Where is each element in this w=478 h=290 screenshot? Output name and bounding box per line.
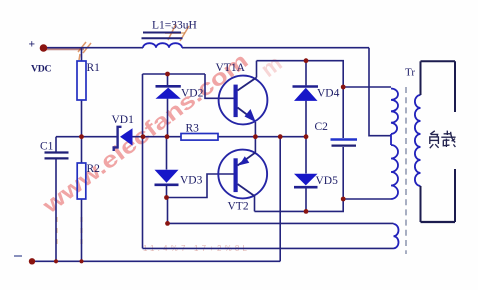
watermark artifacts top-left <box>78 24 189 60</box>
svg-text:R2: R2 <box>87 163 101 175</box>
diode VD4 (pointing up) <box>293 87 319 101</box>
wire: C1 bottom stem <box>55 159 57 261</box>
node VD3 bottom junction <box>164 195 169 200</box>
node VD4 top junction <box>304 58 309 63</box>
transformer core dashed line <box>405 87 407 254</box>
node C1 bottom junction <box>54 259 58 263</box>
diode VD1 (schottky, pointing left) <box>114 127 133 151</box>
svg-text:VT1A: VT1A <box>216 62 246 74</box>
resistor R1 <box>77 61 86 100</box>
wire: top rail right of L1 to right drop <box>182 47 369 49</box>
wire: VT1 emitter riser <box>254 122 256 137</box>
wire: VT1 base link <box>205 74 234 98</box>
wire: VD4 bottom stem <box>305 101 307 137</box>
transformer Tr primary winding upper <box>391 89 398 135</box>
node VDC+ terminal dot <box>40 44 48 52</box>
wire: box left vertical <box>142 74 144 248</box>
watermark artifacts: orange dashes on C1/R2 bottom wires <box>57 217 82 248</box>
svg-text:VT2: VT2 <box>228 201 249 213</box>
wire: VD2 bottom stem <box>167 99 169 137</box>
svg-text:VDC: VDC <box>31 64 52 75</box>
wire: R2 top stem <box>81 137 83 163</box>
wire: riser bottom rail to emitter rail <box>279 137 281 262</box>
node emitter rail junction <box>253 134 258 139</box>
load box bottom <box>421 221 456 223</box>
wire: VD2 top stem <box>167 74 169 85</box>
wire: feedback winding bottom lead <box>143 247 394 249</box>
wire: VT2 emitter riser <box>254 137 256 153</box>
wire: R1 bottom stem <box>81 100 83 137</box>
capacitor C2 <box>331 138 358 141</box>
node riser junction <box>278 134 283 139</box>
node C2 top junction <box>341 85 346 90</box>
resistor R2 <box>77 163 86 199</box>
svg-text:VD2: VD2 <box>181 88 204 100</box>
svg-text:C2: C2 <box>315 121 329 133</box>
svg-text:R3: R3 <box>186 123 200 135</box>
wire: VD2/VD3 box top <box>143 73 206 75</box>
node VD2 top junction <box>165 72 170 77</box>
wire: VT2 collector drop <box>254 196 256 211</box>
wire: C2 node to lower winding bottom <box>343 198 391 200</box>
node R2 bottom junction <box>79 259 83 263</box>
transistor VT2 (PNP) <box>218 150 267 199</box>
wire: feedback winding top lead <box>168 222 394 224</box>
wire: VD3 bottom stem <box>166 186 168 198</box>
transformer secondary winding <box>415 95 421 186</box>
load box right <box>454 61 456 222</box>
wire: VD5 top stem <box>305 137 307 174</box>
node VDC- terminal dot <box>29 258 35 264</box>
wire: VD4 top stem <box>305 61 307 86</box>
node C2 bottom junction <box>341 197 346 202</box>
node box-left/VD1 junction <box>141 134 146 139</box>
svg-text:VD1: VD1 <box>112 114 135 126</box>
node VD2/VD3 mid junction <box>165 134 170 139</box>
- terminal mark <box>14 255 22 257</box>
wire: VT1 collector riser <box>256 61 258 78</box>
diode VD3 (pointing down) <box>155 170 179 185</box>
diode VD2 (pointing up) <box>156 86 181 99</box>
wire: R1 top stem <box>81 48 83 61</box>
wire: bottom rail <box>32 260 280 262</box>
inductor L1 core bars <box>143 32 181 34</box>
node feedback top junction <box>165 221 170 226</box>
node VD4 bottom junction <box>304 134 309 139</box>
wire: R3 to VD4 column (emitter rail) <box>218 136 306 138</box>
wire: C1 top stem <box>55 137 57 152</box>
负 <box>430 131 435 134</box>
wire: C2 bottom stem <box>342 147 344 199</box>
secondary bottom lead <box>420 186 422 222</box>
wire: VD3 node to VT2 base <box>167 174 234 198</box>
wire: R2 bottom stem <box>81 199 83 261</box>
wire: rail2 collector/VD4/C2 <box>257 61 392 87</box>
load box top <box>421 60 456 62</box>
watermark artifacts: red smudge on top wire <box>46 48 84 50</box>
transistor VT1 (NPN) <box>219 76 268 125</box>
svg-text:VD5: VD5 <box>316 175 339 187</box>
label 负载 (load) hand-drawn glyphs <box>426 112 458 169</box>
watermark www.elecfans.com <box>37 48 287 219</box>
wire: VD3 node down to feedback lead <box>167 198 169 224</box>
svg-text:R1: R1 <box>87 62 101 74</box>
feedback winding <box>394 224 399 248</box>
wire: VD5 bottom stem <box>305 188 307 211</box>
wire: VD1 to R3 (through two junctions) <box>133 136 182 138</box>
diode VD5 (pointing down) <box>294 174 318 187</box>
wire: VT2 collector rail to C2 node <box>255 199 344 211</box>
wire: top rail left (VDC+ to L1) <box>44 47 144 49</box>
wire: C2 top stem <box>342 87 344 138</box>
载 <box>444 133 452 135</box>
wire: right drop of top rail to xfmr center tap <box>369 48 391 136</box>
transformer primary spine segment <box>390 134 392 145</box>
svg-text:Tr: Tr <box>405 67 415 79</box>
svg-text:C1: C1 <box>40 141 54 153</box>
node R1/R2/VD1 junction <box>79 134 84 139</box>
svg-text:VD3: VD3 <box>180 175 203 187</box>
inductor L1 coil <box>143 43 182 48</box>
svg-text:VD4: VD4 <box>317 88 340 100</box>
wire: VD3 top stem <box>166 137 168 170</box>
wire: left rail C1 to VD1 <box>56 136 118 138</box>
node VD5 bottom junction <box>304 209 309 214</box>
transformer Tr primary winding lower <box>391 145 398 199</box>
svg-text:L1=33uH: L1=33uH <box>152 20 197 32</box>
svg-text:+: + <box>29 39 36 51</box>
secondary top lead <box>420 61 422 95</box>
resistor R3 <box>181 134 218 141</box>
capacitor C1 <box>45 151 69 153</box>
